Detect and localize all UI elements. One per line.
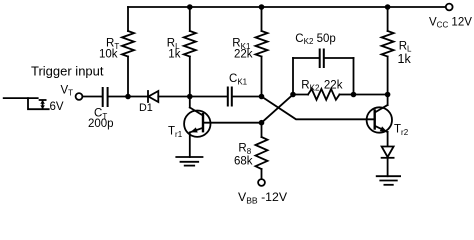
wire Tr2 collector (387, 95, 389, 106)
svg-text:VCC 12V: VCC 12V (429, 16, 472, 29)
wire RT bottom lead (127, 57, 129, 97)
node D dot (Tr1 base/R8/cross-link) (259, 120, 265, 126)
svg-text:Tr2: Tr2 (394, 124, 409, 137)
wire Tr1 emitter to ground (189, 132, 191, 157)
trigger waveform step (4, 98, 49, 109)
wire RT top lead (127, 7, 129, 31)
svg-text:1k: 1k (168, 49, 180, 61)
wire CK1 to node C (233, 96, 262, 98)
node A dot (RT/CT/D1) (125, 94, 131, 100)
svg-text:D1: D1 (139, 102, 153, 114)
wire CK2 top left (293, 57, 319, 59)
svg-text:68k: 68k (234, 156, 253, 168)
node C dot (RK1/CK1/cross-link) (259, 94, 265, 100)
wire cross-link node C to Tr2 base (262, 97, 375, 120)
resistor RL1 (184, 31, 196, 57)
capacitor CK2 (320, 50, 324, 68)
svg-text:Tr1: Tr1 (168, 126, 183, 139)
wire RK1 bottom lead (261, 57, 263, 97)
terminal VBB (258, 179, 265, 186)
svg-text:Trigger input: Trigger input (31, 63, 104, 78)
capacitor CK2 loop: left vertical (292, 58, 294, 95)
wire RK2 to node F (340, 94, 354, 96)
wire node E to RK2 (293, 94, 308, 96)
transistor Tr2 (367, 105, 392, 133)
ground Tr1 emitter (176, 157, 202, 166)
node junction dot top rail at RL1 (187, 4, 193, 10)
svg-text:VT: VT (61, 84, 74, 97)
node G dot (RL2/Tr2 collector) (385, 92, 391, 98)
svg-text:CK2 50p: CK2 50p (295, 33, 336, 46)
resistor RK2 (308, 89, 340, 100)
wire cross-link node D to node E (262, 95, 294, 123)
wire R8 to VBB terminal (261, 169, 263, 179)
node F dot (CK2/RK2 right) (351, 92, 357, 98)
svg-text:6V: 6V (50, 101, 64, 113)
resistor RL2 (382, 31, 394, 57)
diode D1 (148, 91, 158, 102)
node junction dot top rail at RK1 (259, 4, 265, 10)
wire D1 to node B (158, 96, 190, 98)
node E dot (CK2-RK2 left/cross-link) (290, 92, 296, 98)
transistor Tr1 (184, 108, 210, 137)
terminal Vcc (446, 4, 453, 11)
wire RL1 top lead (189, 7, 191, 31)
wire node B to CK1 (190, 96, 227, 98)
wire RL1 bottom lead (189, 57, 191, 97)
svg-text:22k: 22k (234, 49, 253, 61)
wire CK2 loop right vertical (353, 58, 355, 95)
wire node D to R8 (261, 123, 263, 137)
wire node A to D1 (128, 96, 147, 98)
terminal VT input (76, 93, 83, 100)
wire Tr2 emitter to diode (387, 132, 389, 147)
wire RL2 top lead (387, 7, 389, 31)
wire VT to CT (82, 96, 101, 98)
svg-text:10k: 10k (99, 49, 118, 61)
wire top supply rail (128, 6, 446, 8)
ground Tr2 (377, 176, 400, 185)
wire Tr1 base (203, 122, 262, 124)
wire diode to ground (387, 158, 389, 176)
node junction dot top rail at RL2 (385, 4, 391, 10)
wire CK2 top right (325, 57, 354, 59)
svg-text:RK2 22k: RK2 22k (301, 79, 342, 92)
wire RL2 bottom lead (387, 57, 389, 95)
svg-text:200p: 200p (88, 118, 114, 130)
capacitor CT (103, 88, 108, 106)
wire Tr1 collector (189, 97, 191, 108)
svg-text:VBB -12V: VBB -12V (238, 190, 288, 205)
wire RK1 top lead (261, 7, 263, 31)
node B dot (RL1/D1/Tr1 collector/CK1) (187, 94, 193, 100)
svg-text:1k: 1k (398, 52, 412, 66)
svg-text:R8: R8 (238, 143, 251, 156)
resistor RK1 (256, 31, 268, 57)
svg-text:CK1: CK1 (229, 73, 248, 86)
wire node F to node G (354, 94, 388, 96)
resistor RT (122, 31, 134, 57)
resistor R8 (256, 137, 268, 169)
capacitor CK1 (228, 88, 232, 106)
wire CT to node A (109, 96, 128, 98)
diode D2 (emitter diode) (382, 147, 394, 158)
